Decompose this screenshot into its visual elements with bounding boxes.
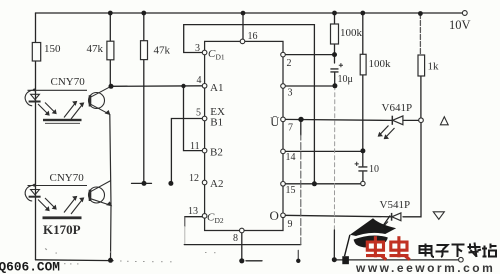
pin 2 — [281, 52, 286, 57]
wire CD2 loop bottom horizontal — [184, 244, 300, 246]
node ground-C1 junction — [332, 257, 337, 262]
svg-text:3: 3 — [288, 88, 293, 99]
node rail-R6 junction — [418, 11, 423, 16]
wire V641P LED to terminal — [403, 119, 419, 121]
pin 15 — [281, 182, 286, 187]
wire CD2 loop up to pin7 node — [300, 119, 302, 135]
wire pin15 right — [283, 183, 361, 185]
symbol triangle down — [433, 212, 444, 220]
pin 13 CD2 — [202, 214, 207, 219]
LED V641P — [379, 116, 403, 139]
svg-text:10V: 10V — [449, 18, 471, 32]
watermark site name characters — [420, 243, 497, 258]
wire CD2 loop down — [184, 217, 186, 227]
node rail-R3 junction — [141, 11, 146, 16]
wire 47k R3 drop x144 — [143, 13, 145, 183]
svg-text:5: 5 — [196, 108, 201, 119]
wire top supply rail — [36, 12, 463, 14]
svg-text:www.eeworm.com: www.eeworm.com — [355, 261, 495, 274]
svg-text:3: 3 — [195, 43, 200, 54]
node pin2-C1 junction — [332, 52, 337, 57]
LED V541P — [380, 213, 401, 231]
optocoupler CNY70 upper — [25, 86, 111, 123]
svg-text:15: 15 — [286, 185, 296, 196]
svg-text:47k: 47k — [87, 43, 104, 55]
node ground stub junction — [296, 259, 300, 263]
node opto1 topline junction — [33, 89, 36, 92]
terminal V641P output — [419, 118, 424, 123]
svg-text:D2: D2 — [215, 216, 224, 225]
svg-text:D1: D1 — [216, 53, 225, 62]
wire branch A1 to pin11 B2 — [184, 86, 205, 151]
svg-text:CNY70: CNY70 — [51, 76, 86, 88]
wire 47k R2 drop x110 — [109, 13, 111, 86]
wire stub at bottom of R3 — [132, 182, 152, 184]
wire ground rail right under watermark — [334, 259, 458, 261]
resistor R5 100k — [360, 54, 391, 75]
svg-text:O: O — [270, 208, 279, 223]
svg-text:16: 16 — [248, 31, 258, 42]
svg-text:V641P: V641P — [382, 102, 413, 114]
pin number labels — [188, 31, 296, 244]
svg-text:11: 11 — [190, 141, 200, 152]
watermark chongchong red characters — [366, 236, 410, 259]
pin 9 — [281, 213, 286, 218]
node A1-B2 branch junction — [181, 84, 185, 88]
wire pin5 B1 to lower stub — [171, 119, 204, 184]
resistor R6 1k — [418, 55, 439, 76]
svg-text:10: 10 — [369, 164, 379, 175]
pin 7 — [281, 117, 286, 122]
svg-text:1k: 1k — [428, 61, 440, 73]
wire 100k R4 chain x334 — [334, 13, 336, 63]
resistor R1 150 — [32, 43, 61, 62]
terminal ground right — [459, 257, 464, 262]
node ground-pin8 junction — [239, 258, 244, 263]
svg-text:8: 8 — [233, 233, 238, 244]
svg-text:A1: A1 — [210, 82, 223, 94]
wire x314 down to pin15 wire — [313, 25, 315, 184]
LED V541P emission arrow over cap — [381, 216, 391, 230]
pin 16 — [240, 39, 245, 44]
wire pin16 drop from rail — [242, 13, 244, 39]
svg-text:B1: B1 — [210, 117, 223, 129]
node pin14-C2 junction — [360, 148, 365, 153]
wire pin9 to LED V541P — [283, 215, 392, 217]
svg-text:100k: 100k — [369, 58, 392, 70]
svg-text:Ū: Ū — [270, 115, 279, 129]
watermark graduation cap — [342, 218, 396, 264]
svg-text:K170P: K170P — [43, 222, 81, 237]
svg-text:14: 14 — [286, 152, 296, 163]
wire mid top CD1 to x314 — [184, 24, 315, 26]
wire ground stub x298 — [297, 250, 299, 260]
zai — [468, 243, 482, 258]
svg-text:B2: B2 — [210, 146, 223, 158]
node ground-opto junction — [108, 258, 113, 263]
wire pin2 right — [283, 54, 335, 56]
pin 4 A1 — [202, 84, 207, 89]
wire node A1 horizontal — [111, 85, 205, 88]
svg-text:7: 7 — [288, 123, 293, 134]
svg-text:A2: A2 — [210, 178, 223, 190]
scan speckles — [45, 248, 216, 264]
wire pin14 right — [283, 150, 363, 152]
node A1 collector junction — [109, 84, 114, 89]
pin 3 CD1 — [202, 50, 207, 55]
pin 14 — [281, 149, 286, 154]
wire pin13 CD2 stub — [185, 216, 205, 218]
wire pin1 right — [283, 85, 335, 87]
svg-text:150: 150 — [44, 43, 61, 55]
svg-text:4: 4 — [197, 75, 202, 86]
node pin7 junction — [298, 117, 303, 122]
symbol triangle up — [440, 117, 448, 125]
wire 100k R5 chain x363 — [362, 13, 364, 166]
wire cap C1 lower lead to pin1 wire — [334, 72, 336, 86]
svg-text:V541P: V541P — [380, 199, 411, 211]
IC U1 box — [205, 41, 283, 230]
resistor R2 47k — [87, 41, 114, 60]
wire 1k R6 chain x421 — [419, 14, 421, 56]
node rail-pin16 junction — [241, 11, 246, 16]
wire bottom rail left segment — [36, 259, 114, 262]
wire phototransistor chain x110 — [110, 114, 111, 260]
component name labels — [43, 76, 412, 237]
wire cap C2 lower lead — [362, 172, 364, 181]
wire V641P terminal down to V541P — [403, 123, 421, 217]
svg-text:9: 9 — [288, 219, 293, 230]
node B1 stub end — [168, 181, 173, 186]
IC pin circles — [202, 39, 285, 233]
svg-text:CNY70: CNY70 — [50, 172, 85, 184]
terminal 10V — [449, 11, 471, 32]
wire left rail — [35, 13, 37, 260]
pin 12 A2 — [202, 180, 207, 185]
svg-text:47k: 47k — [154, 45, 171, 57]
xia — [452, 245, 465, 258]
svg-text:100k: 100k — [340, 27, 363, 39]
svg-text:Q606.COM: Q606.COM — [0, 260, 60, 274]
pin 1 — [281, 84, 286, 89]
pin 8 — [240, 228, 245, 233]
dian — [420, 244, 435, 258]
wire faint x334 down to ground — [333, 86, 335, 230]
pin 5 B1 — [202, 116, 207, 121]
node rail-R2 junction — [108, 11, 113, 16]
node pin15 junction — [312, 181, 317, 186]
capacitor C2 10 electrolytic — [355, 162, 379, 175]
terminal cap C2 bottom — [361, 181, 365, 185]
resistor R3 47k — [141, 41, 171, 60]
node R3 bottom stub — [142, 181, 147, 186]
svg-text:2: 2 — [287, 58, 292, 69]
capacitor C1 10u electrolytic — [330, 63, 352, 85]
wire ground rail dash right of pin8 — [246, 260, 262, 262]
wire pin7 to LED V641P — [283, 119, 392, 120]
IC internal labels — [207, 48, 279, 225]
svg-text:13: 13 — [188, 206, 198, 217]
wire pin3 CD1 stub up — [184, 25, 205, 53]
wire 1k bottom to V641P terminal — [420, 76, 422, 118]
resistor R4 100k — [331, 24, 363, 44]
node pin1-C1 junction — [332, 83, 337, 88]
node opto2 topline junction — [33, 184, 36, 187]
node rail-R4 junction — [332, 11, 337, 16]
zi — [436, 245, 449, 257]
svg-text:10μ: 10μ — [338, 74, 353, 85]
wire pin8 drop to ground rail — [241, 231, 243, 261]
svg-text:12: 12 — [189, 173, 199, 184]
pin 11 B2 — [202, 148, 207, 153]
optocoupler CNY70/K170P lower — [25, 181, 111, 220]
zhan — [482, 244, 497, 257]
node rail-R5 junction — [360, 11, 365, 16]
